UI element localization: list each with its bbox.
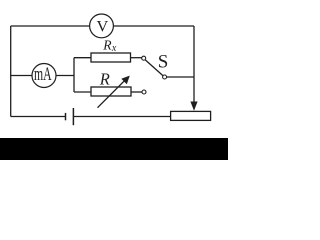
switch blade [145, 60, 163, 76]
wire mA right [56, 75, 74, 77]
ammeter mA [32, 64, 56, 88]
wire R left [74, 91, 91, 93]
svg-text:V: V [97, 17, 109, 36]
wire junction vertical [73, 58, 75, 92]
wire mA left [11, 75, 33, 77]
rheostat R0 (slide) [171, 111, 211, 120]
voltmeter V [90, 14, 114, 38]
wire right [193, 26, 195, 102]
open contact R branch [142, 90, 146, 94]
wire left [10, 26, 12, 117]
rheostat arrow [98, 76, 130, 108]
slider arrow [190, 102, 197, 111]
switch contact lower [163, 75, 167, 79]
wire bottom right [73, 116, 170, 118]
wire switch to right [167, 76, 194, 78]
wire R right [131, 91, 142, 93]
resistor R (rheostat) [91, 87, 131, 96]
svg-text:mA: mA [34, 65, 52, 85]
wire top [11, 25, 194, 27]
resistor Rx [91, 53, 131, 62]
switch contact upper [142, 56, 146, 60]
wire Rx left [74, 57, 91, 59]
svg-text:R: R [99, 69, 110, 88]
battery [66, 108, 74, 125]
wire Rx right [131, 57, 142, 59]
wire bottom left [11, 116, 66, 118]
svg-text:S: S [158, 51, 169, 72]
